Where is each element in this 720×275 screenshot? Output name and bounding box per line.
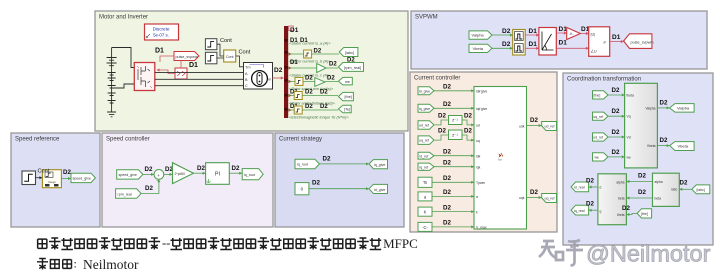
svg-text:we: we [595,156,600,160]
svg-text:Cont: Cont [38,169,50,175]
svg-text:speed_give: speed_give [119,173,137,177]
label D2 [612,87,620,94]
svg-text:Speed controller: Speed controller [106,137,150,143]
svg-text:z⁻¹: z⁻¹ [452,118,458,123]
svg-text:we: we [345,80,350,84]
rate transition dual block [513,30,526,56]
label D2 row9 [443,204,451,211]
gain 2*pi/60 [173,163,194,184]
label D2 [612,129,620,136]
label D2 [197,165,205,172]
bus row 3: gain, goto [rpm_real] [288,58,363,78]
svg-text:D2: D2 [323,156,331,163]
caption line 1 pseudo CJK [38,236,418,251]
svg-text:D1: D1 [290,60,298,66]
block alphabeta to dq [598,174,627,225]
watermark glyph hu [566,240,583,266]
from tag speed_give [117,170,143,179]
svg-text:D1: D1 [559,40,568,47]
svg-text:theta: theta [617,213,624,217]
svg-text:V_max: V_max [476,226,487,230]
from tag id_ref [418,152,434,159]
svg-text:D2: D2 [660,137,668,144]
svg-text:[rpm_real]: [rpm_real] [344,66,361,70]
svg-text:D2: D2 [638,189,646,196]
goto tag Vbeta [670,142,695,151]
label D2 [323,156,331,163]
svg-text:Vq: Vq [627,115,631,119]
wire selector to motor row [157,69,176,74]
wire the to dq2ab [608,94,625,97]
svg-text:5e-07 s.: 5e-07 s. [153,33,169,38]
watermark glyph zhi [539,241,563,260]
svg-text:a: a [476,195,478,199]
goto tag id_real [571,182,589,192]
svg-text:Speed reference: Speed reference [15,137,60,143]
label D2 row7 [443,175,451,182]
svg-text:fcn: fcn [498,158,502,162]
svg-text:Coordination transformation: Coordination transformation [567,77,641,83]
label D2 row8 [443,189,451,196]
svg-text:D2: D2 [464,128,472,135]
wire row2 [434,107,474,110]
svg-text:D2: D2 [443,84,451,91]
svg-text:beta: beta [618,196,625,200]
bus row 2: tap, rate block, goto [iabc] [288,38,358,64]
svg-text:D2: D2 [443,220,451,227]
svg-text:iq_rout: iq_rout [244,173,255,177]
bus row 5: rate block, goto [the] [288,90,353,106]
label D2 [586,178,594,185]
wire the to park theta [626,213,637,216]
svg-text:Vbeta: Vbeta [678,144,689,149]
svg-text:D2: D2 [638,173,646,180]
svg-text:D1: D1 [559,26,568,33]
svg-text:iq_rout: iq_rout [297,163,308,167]
wire to sum [143,173,154,176]
from tag Vbeta [469,44,492,52]
svg-text:Vbeta: Vbeta [647,144,656,148]
phase wire C [155,85,244,87]
svg-text:we: we [627,155,631,159]
wire step to rate [36,176,43,179]
label D1 [189,62,198,69]
powergui block Discrete 5e-07 s. [145,24,179,40]
rate transition block Tm [224,50,236,62]
block abc to alphabeta [653,173,680,206]
svg-text:pulse_svpwm: pulse_svpwm [176,55,198,59]
svg-text:iqk: iqk [476,165,481,169]
wire pulse tag to selector [160,56,181,68]
svg-text:idk: idk [476,154,481,158]
label D2 [165,166,173,173]
cart2polar block [539,28,556,56]
svg-text:D1: D1 [155,48,164,55]
battery V1 plates [107,58,117,66]
wire row7 [432,181,474,184]
wire Valpha out [657,106,669,109]
svg-text:D2: D2 [443,101,451,108]
svg-text:D2: D2 [502,41,511,48]
svg-text:Current controller: Current controller [414,76,460,82]
svg-text:alpha: alpha [655,180,663,184]
bus tap arrows [289,52,292,111]
from tag rpm_real [116,189,142,199]
label D2 [232,165,240,172]
svg-text:uq: uq [476,139,480,143]
svg-text:D2: D2 [305,90,313,96]
svg-text:D2: D2 [438,113,446,120]
goto tag iq_give [369,160,388,169]
svg-text:D2: D2 [145,166,153,173]
area: Motor and Inverter [95,11,408,131]
svg-text:D2: D2 [612,108,620,115]
label D2 motor output [274,67,283,74]
wire udk out [527,124,542,127]
goto tag id_give [369,184,388,193]
svg-text:k: k [476,210,478,214]
svg-text:D2: D2 [612,129,620,136]
area: Current controller [410,72,557,232]
from tag ud_ref coord [593,133,609,141]
wire uq_ref to dq2ab [608,115,625,118]
svg-text:Current strategy: Current strategy [279,137,322,143]
wire rate to goto [61,177,71,180]
from tag uq_ref [418,136,434,145]
label Cont 2 [239,50,251,56]
wire motor m to bus [273,76,284,79]
svg-text:2*pi/60: 2*pi/60 [175,172,186,176]
label D2 row6 [443,160,451,167]
wire row6 [434,165,474,168]
constant 0 block [295,183,309,195]
wire Vbeta out [657,144,669,147]
wires row3 [434,120,474,126]
svg-text:D2: D2 [586,178,594,185]
svg-text:D1: D1 [612,34,621,41]
svg-text:-K-: -K- [569,32,574,36]
wire row5 [434,154,474,157]
svg-text:D2: D2 [502,28,511,35]
svg-text:D2: D2 [530,117,538,124]
phase wire B [155,78,244,80]
svg-text:Vd: Vd [627,136,631,140]
area: Current strategy [275,133,404,227]
block dq to alphabeta [625,83,658,168]
svg-text:D1: D1 [189,62,198,69]
svg-text:D2: D2 [443,204,451,211]
goto tag uq_ref out [542,194,557,203]
label Cont [38,169,50,175]
svg-text:[the]: [the] [594,94,601,98]
svg-text:id_give: id_give [374,188,385,192]
svg-text:Valpha: Valpha [645,106,655,110]
PMSM motor block [244,63,273,90]
constant block a [418,192,432,201]
svg-text:rpm_real: rpm_real [118,192,132,196]
from tag iq_rout [295,159,319,169]
from tag Valpha [469,31,492,39]
svg-text:Discrete: Discrete [153,27,170,32]
wire battery+ to inverter [112,48,135,68]
svg-text:D2: D2 [327,76,335,82]
label D2 [612,149,620,156]
constant block K [418,207,432,216]
label D2 [145,185,153,192]
svg-text:D2: D2 [464,113,472,120]
svg-text:iq_give: iq_give [374,163,385,167]
DC bus wire [111,48,113,113]
area: Coordination transformation [563,73,713,245]
svg-text:D2: D2 [612,149,620,156]
svg-text:uq_ref: uq_ref [419,139,429,143]
svg-text:[Te]: [Te] [344,108,350,112]
label D2 row5 [443,149,451,156]
svg-text:iq_give: iq_give [419,107,430,111]
wire rate transition to motor Tm [236,56,244,67]
svg-text:D2: D2 [443,149,451,156]
svg-text:id_give: id_give [419,90,430,94]
svg-text:D2: D2 [622,205,630,212]
svg-text::: : [74,257,77,271]
svg-text:D1: D1 [529,41,538,48]
svg-text:D2: D2 [660,100,668,107]
constant block Ts [418,177,432,187]
svg-text:D1: D1 [300,38,308,44]
goto tag iq_rout [242,169,263,180]
label D2 out2 [530,189,538,196]
label D2 [660,100,668,107]
area: SVPWM [411,11,707,69]
svg-text:PI: PI [215,172,221,178]
label D1 [612,34,621,41]
svg-text:[the]: [the] [345,95,352,99]
bus row 6: rate block, goto [Te] [288,104,351,120]
label D2 [680,180,688,187]
labels D2 D2 [502,28,511,48]
from tag iq_give [418,104,434,112]
inverter universal bridge block [134,63,155,91]
label D2 row10 [443,220,451,227]
label D2 out1 [530,117,538,124]
svg-text:uqk: uqk [519,196,525,200]
from tag ud_ref [418,121,434,130]
svg-text:D2: D2 [680,180,688,187]
label Cont [220,38,232,44]
from tag pulse_svpwm [174,52,199,61]
gain triangle -K- [567,28,581,40]
svg-text:D2: D2 [305,104,313,110]
unit delay Z-1 row4 [449,130,463,140]
svg-text:D2: D2 [197,165,205,172]
svg-text:ud: ud [476,124,480,128]
rate transition speed ref [42,170,61,188]
svg-text:theta: theta [627,94,634,98]
wire clarke alpha to park alpha [626,180,652,183]
svg-text:[iabc]: [iabc] [697,188,705,192]
labels D1 D1 [559,26,568,47]
wire battery- to inverter [112,84,135,88]
svg-text:alpha: alpha [616,180,624,184]
wire 0 to id_give [309,187,369,190]
label D2 row2 [443,101,451,108]
svg-text:D2: D2 [329,62,337,68]
area: Speed reference [11,133,100,227]
wire gain to PI [193,172,205,175]
svg-text:Cont: Cont [220,38,232,44]
phase wire A [155,72,244,74]
step block speed ref [22,171,36,185]
svg-text:id_real: id_real [574,186,585,190]
step source block 1 [205,39,217,50]
svg-text:pulse_svpwm: pulse_svpwm [631,41,654,45]
wire PI to goto [229,172,242,175]
bus row 4: rate block, gain, goto we [288,76,352,92]
svg-text:D2: D2 [443,175,451,182]
label D1 [581,26,590,33]
labels D1 D1 [529,28,538,48]
wire rpm_real to sum [141,179,160,193]
from tag [the] [593,91,609,99]
svg-text:udk: udk [519,124,525,128]
svg-text:D2: D2 [274,67,283,74]
svg-text:D1: D1 [529,28,538,35]
wire step1 to rate transition [217,44,224,58]
battery V2 plates [108,73,116,104]
labels D2 row4 [438,128,472,135]
svg-text:D2: D2 [63,169,71,176]
label D2 [660,137,668,144]
svg-text:Cont: Cont [226,55,234,59]
svg-text:D2: D2 [232,165,240,172]
wire park q to iq_real [589,209,598,212]
caption line 2 [37,257,139,273]
constant block -C- [418,222,432,231]
wire row8 [432,195,474,198]
svg-text:D2: D2 [530,189,538,196]
bus row 1 label D1 [289,27,331,46]
wire sum to gain [164,173,173,176]
svg-text:MFPC: MFPC [383,236,418,251]
svg-text:D2: D2 [443,160,451,167]
label D2 [312,180,320,187]
svg-text:q: q [600,209,602,213]
label D2 [638,173,646,180]
wire park d to id_real [589,186,598,189]
wire iabc to clarke [679,188,692,191]
svg-text:SVPWM: SVPWM [415,15,438,21]
svg-text:D2: D2 [443,189,451,196]
svg-text:D2: D2 [612,87,620,94]
svg-text:[the]: [the] [641,212,648,216]
svg-text:iabc: iabc [671,188,677,192]
svg-text:Tpwm: Tpwm [476,181,485,185]
svg-text:-C-: -C- [422,225,428,230]
wires row4 [434,135,474,142]
area: Speed controller [102,133,273,227]
svg-text:D1: D1 [290,27,299,34]
svg-text:C: C [245,84,248,88]
svg-text:beta: beta [655,197,662,201]
svg-text:D2: D2 [320,90,328,96]
svg-text:Tm: Tm [245,66,250,70]
svg-text:ud_ref: ud_ref [419,124,429,128]
svg-text:Cont: Cont [239,50,251,56]
svg-text:iqk'give: iqk'give [476,107,487,111]
svg-text:iq_real: iq_real [574,209,585,213]
svg-text:D2: D2 [305,76,313,82]
svg-text:iq_ref: iq_ref [420,165,429,169]
svg-text:Valpha: Valpha [677,106,690,111]
wire ud_ref to dq2ab [608,136,625,139]
svg-text:D2: D2 [145,185,153,192]
svg-text:D1: D1 [290,38,298,44]
label D2 [145,166,153,173]
label D2 [63,169,71,176]
wire iq_rout to iq_give [319,162,369,165]
selector block [175,68,187,79]
wire row9 [432,210,474,213]
svg-text:integn: integn [48,180,56,184]
svg-text:speed_give: speed_give [73,177,91,181]
label D2 [622,205,630,212]
svg-text:--: -- [162,236,170,250]
from tag [the] coord bottom [637,209,652,218]
label D2 [638,189,646,196]
svg-text:K: K [424,210,427,215]
svg-text:Vbeta: Vbeta [473,46,484,51]
goto tag ud_ref out [542,122,557,131]
sum junction [154,170,164,183]
label D2 row1 [443,84,451,91]
svg-text:Valpha: Valpha [472,33,485,38]
svg-text:Motor and Inverter: Motor and Inverter [99,15,148,21]
label D2 [586,201,594,208]
unit delay Z-1 row3 [449,116,463,125]
svg-text:D2: D2 [438,128,446,135]
wire gain to PWM block [580,32,589,35]
svg-text:D2: D2 [312,180,320,187]
bus selector bar [284,26,293,118]
svg-text:∠U: ∠U [591,50,597,54]
label D1 pulse [155,48,164,55]
svg-text:ud_ref: ud_ref [545,124,555,128]
svg-text:id_ref: id_ref [420,154,429,158]
goto tag Valpha [670,104,695,113]
labels D2 row3 [438,113,472,120]
goto tag iq_real [571,205,589,215]
wires to cart2polar [525,33,539,50]
PWM generator block [589,27,610,57]
svg-text:D2: D2 [586,201,594,208]
MATLAB function block MFPC [474,87,527,230]
svg-text:d: d [600,185,602,189]
svg-text:m: m [268,78,271,82]
svg-text:Ts: Ts [423,180,427,185]
svg-text:idk'give: idk'give [476,90,487,94]
from tag uq_ref coord [593,112,609,120]
label D2 [612,108,620,115]
from tag [iabc] coord [692,185,710,194]
watermark Zhihu @Neilmotor [539,240,711,267]
wire PWM to goto [610,40,624,43]
wire uqk out [527,196,542,199]
svg-text:[iabc]: [iabc] [345,51,354,55]
from tag we coord [593,153,609,161]
PI controller block [206,163,230,185]
svg-text:D2: D2 [320,104,328,110]
from tag iq_ref [418,163,434,170]
